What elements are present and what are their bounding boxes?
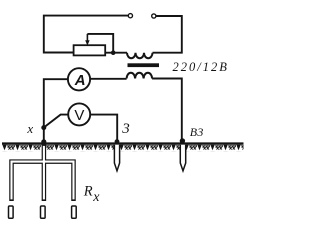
wire: ammeter right to secondary winding left end <box>90 78 126 80</box>
Rx grounding grid: buried bus with left and right rods (hollow conductor) <box>12 162 74 201</box>
wire: rheostat wiper tap to main conductor <box>87 34 113 53</box>
wire: ammeter left to left vertical conductor down to node x and ground <box>44 79 68 142</box>
auxiliary electrode вз rod <box>180 145 185 171</box>
wire: top loop (top conductor, left vertical, bottom to rheostat left terminal) <box>44 16 129 53</box>
ground surface line <box>2 142 244 144</box>
Rx grounding grid: riser and middle rod (hollow conductor) <box>42 144 47 201</box>
svg-text:В3: В3 <box>190 125 204 139</box>
svg-text:x: x <box>26 121 33 136</box>
electrode plate under right rod <box>72 206 77 218</box>
Rx grounding grid: hollow interior <box>12 146 74 200</box>
wire: voltmeter right down to probe electrode з <box>90 115 117 141</box>
transformer T primary winding <box>127 53 153 59</box>
svg-text:3: 3 <box>121 121 130 137</box>
probe electrode з rod <box>114 145 119 171</box>
svg-text:V: V <box>74 107 84 124</box>
svg-text:x: x <box>92 190 100 205</box>
switch S right contact <box>152 14 156 18</box>
wire: rheostat right terminal to primary winding <box>105 52 127 54</box>
voltmeter V <box>68 103 90 125</box>
svg-text:A: A <box>74 72 86 89</box>
rheostat R (slide-wire box) <box>74 45 106 55</box>
wire: secondary winding right end down to auxiliary electrode <box>152 79 182 141</box>
svg-text:220/12В: 220/12В <box>173 60 229 74</box>
ground soil hatching <box>2 145 244 152</box>
transformer T core <box>128 63 160 67</box>
transformer T secondary winding <box>127 73 153 79</box>
rheostat wiper arrow <box>85 34 89 46</box>
wire: voltmeter left diagonal to node x <box>44 115 70 128</box>
junction: auxiliary electrode at surface <box>180 138 185 143</box>
junction: earth lead of Rx at surface <box>41 139 46 144</box>
junction: probe electrode at surface <box>115 139 120 144</box>
svg-text:R: R <box>83 184 93 200</box>
junction: wiper tap on main conductor <box>111 50 116 55</box>
node x junction dot <box>41 125 46 130</box>
electrode plate under middle rod <box>41 206 46 218</box>
ammeter A <box>68 68 90 90</box>
electrode plate under left rod <box>9 206 14 218</box>
wire: from switch right contact right and down to transformer primary right end <box>153 16 182 53</box>
switch S left contact <box>128 14 132 18</box>
